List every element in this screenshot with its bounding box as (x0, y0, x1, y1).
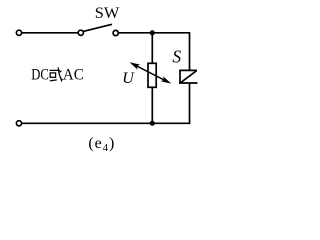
label 或 (hand-drawn glyph) (50, 67, 63, 81)
terminal bottom-left (16, 121, 21, 126)
switch SW blade (83, 24, 112, 31)
svg-text:DC: DC (31, 67, 49, 84)
varistor U arrow (130, 62, 172, 83)
svg-text:SW: SW (95, 5, 120, 22)
wire top rail to right corner (118, 32, 189, 34)
arrester S symbol (179, 70, 197, 84)
svg-text:AC: AC (63, 67, 84, 84)
wire U branch upper (151, 33, 153, 64)
wire U branch lower (151, 87, 153, 123)
node junction top (150, 30, 155, 35)
svg-text:S: S (172, 47, 181, 67)
varistor U body (148, 63, 156, 87)
wire right branch lower (189, 83, 191, 124)
node junction bottom (150, 121, 155, 126)
switch SW left contact (78, 30, 83, 35)
svg-text:U: U (122, 70, 135, 87)
wire right branch upper (189, 32, 191, 70)
wire top-left rail (22, 32, 79, 34)
wire bottom rail (22, 122, 191, 124)
terminal top-left (16, 30, 21, 35)
switch SW right contact (113, 30, 118, 35)
svg-text:(e4): (e4) (88, 135, 115, 154)
